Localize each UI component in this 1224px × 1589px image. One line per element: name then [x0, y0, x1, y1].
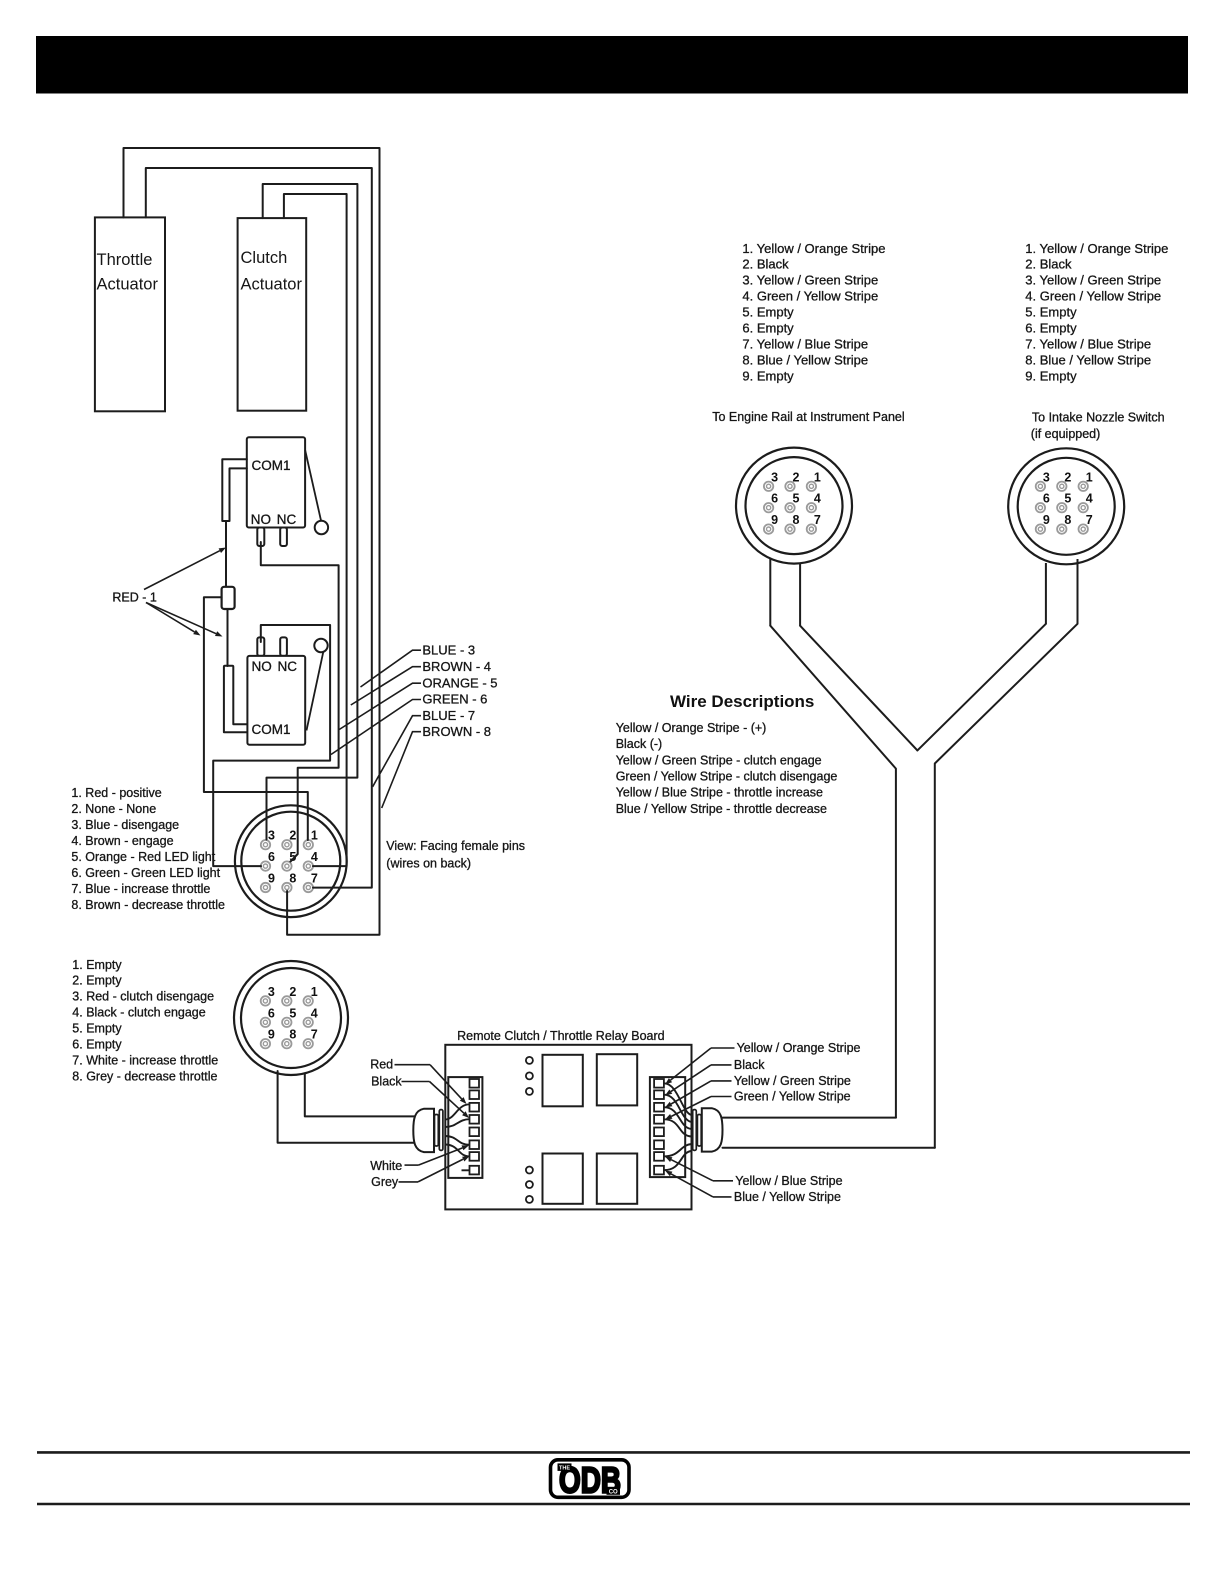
throttle actuator box: [95, 217, 165, 411]
relay board outline: [445, 1045, 691, 1210]
S2 lever: [307, 652, 324, 731]
svg-text:To Engine Rail at Instrument P: To Engine Rail at Instrument Panel: [712, 410, 904, 424]
svg-text:4. Green / Yellow Stripe: 4. Green / Yellow Stripe: [742, 289, 878, 304]
svg-text:6: 6: [771, 492, 778, 506]
S2 lever roller: [314, 639, 327, 652]
svg-text:8. Grey - decrease throttle: 8. Grey - decrease throttle: [72, 1069, 217, 1083]
microswitch S1 body: [247, 437, 305, 527]
svg-text:8: 8: [289, 1028, 296, 1042]
svg-text:BROWN - 4: BROWN - 4: [422, 659, 491, 674]
Black leader arrow: [402, 1082, 470, 1119]
splice block: [222, 587, 235, 609]
right plug wire from sq4: [664, 1119, 692, 1136]
White leader arrow: [405, 1145, 470, 1165]
svg-text:6. Empty: 6. Empty: [742, 321, 794, 336]
relay K1: [543, 1055, 583, 1107]
S1 lever: [305, 450, 321, 521]
svg-text:2. None - None: 2. None - None: [71, 802, 156, 816]
svg-text:White: White: [370, 1159, 402, 1173]
red wire splice to S2 loop: [227, 609, 229, 666]
svg-text:Wire Descriptions: Wire Descriptions: [670, 692, 814, 711]
right plug wire from sq8: [664, 1151, 692, 1170]
svg-text:3. Yellow / Green Stripe: 3. Yellow / Green Stripe: [1025, 273, 1161, 288]
svg-text:3. Yellow / Green Stripe: 3. Yellow / Green Stripe: [742, 273, 878, 288]
J4 stub left: [1045, 563, 1047, 624]
svg-text:Remote Clutch / Throttle Relay: Remote Clutch / Throttle Relay Board: [457, 1029, 665, 1043]
svg-text:BROWN - 8: BROWN - 8: [422, 724, 491, 739]
svg-text:4. Brown - engage: 4. Brown - engage: [71, 834, 173, 848]
view caption: [386, 839, 525, 870]
svg-text:COM1: COM1: [252, 722, 291, 737]
svg-text:6. Green - Green LED light: 6. Green - Green LED light: [71, 866, 220, 880]
svg-text:NO: NO: [251, 512, 271, 527]
svg-text:3: 3: [268, 829, 275, 843]
Y cable left branch inner: [800, 626, 917, 751]
S2 COM cable loop: [224, 666, 247, 733]
relay K2: [597, 1054, 637, 1105]
svg-text:Actuator: Actuator: [97, 276, 159, 294]
svg-text:Black (-): Black (-): [616, 737, 663, 751]
svg-text:3: 3: [1043, 470, 1050, 484]
ODB logo: [551, 1460, 630, 1501]
svg-text:6: 6: [268, 850, 275, 864]
svg-text:3. Red - clutch disengage: 3. Red - clutch disengage: [72, 990, 214, 1004]
svg-text:2: 2: [1064, 470, 1071, 484]
svg-text:NC: NC: [277, 512, 297, 527]
Grey leader arrow: [399, 1156, 470, 1182]
wire 2 throttle pin2 to J1 pin7: [146, 168, 372, 888]
wire descriptions list: [616, 721, 838, 816]
svg-text:1: 1: [311, 829, 318, 843]
svg-text:7. White - increase throttle: 7. White - increase throttle: [72, 1053, 218, 1067]
S2 pin NO: [257, 637, 264, 656]
red branch wire splice to J1 pin1: [204, 597, 308, 840]
svg-text:4. Black - clutch engage: 4. Black - clutch engage: [72, 1006, 205, 1020]
leader Yellow/Green to sq3: [665, 1081, 732, 1108]
svg-text:6: 6: [1043, 492, 1050, 506]
right plug wire from sq3: [664, 1107, 692, 1129]
Y cable left branch outer: [770, 626, 896, 1118]
svg-text:COM1: COM1: [252, 458, 291, 473]
svg-text:7: 7: [311, 872, 318, 886]
svg-text:2. Black: 2. Black: [742, 257, 789, 272]
footer rule bottom: [37, 1503, 1190, 1506]
svg-text:Blue / Yellow Stripe: Blue / Yellow Stripe: [734, 1190, 841, 1204]
svg-text:Yellow / Green Stripe: Yellow / Green Stripe: [734, 1074, 851, 1088]
J3 stub left: [769, 559, 771, 626]
svg-text:Yellow / Green Stripe - clutch: Yellow / Green Stripe - clutch engage: [616, 753, 822, 767]
svg-text:1: 1: [311, 985, 318, 999]
svg-text:5. Empty: 5. Empty: [72, 1022, 122, 1036]
S1 COM cable loop: [222, 459, 247, 521]
leader Black to sq2: [665, 1065, 732, 1096]
svg-text:4: 4: [311, 850, 318, 864]
J4 stub right: [1077, 559, 1079, 624]
svg-text:2. Empty: 2. Empty: [72, 974, 122, 988]
svg-text:5. Empty: 5. Empty: [742, 305, 794, 320]
svg-text:9: 9: [268, 872, 275, 886]
svg-text:CO: CO: [609, 1490, 618, 1496]
relay K3: [543, 1154, 583, 1204]
svg-text:7. Yellow / Blue Stripe: 7. Yellow / Blue Stripe: [1025, 336, 1151, 351]
RED-1 arrow to upper red wire: [144, 551, 220, 590]
svg-text:View: Facing female pins: View: Facing female pins: [386, 839, 525, 853]
svg-text:8: 8: [1064, 513, 1071, 527]
svg-text:Actuator: Actuator: [241, 276, 303, 294]
relay board mounting holes: [526, 1057, 533, 1203]
Y cable right branch inner: [917, 624, 1046, 751]
svg-text:7. Yellow / Blue Stripe: 7. Yellow / Blue Stripe: [742, 336, 868, 351]
wire 4 clutch pin2 to J1 pin4: [284, 194, 347, 866]
svg-text:Black: Black: [734, 1058, 765, 1072]
svg-text:4: 4: [1086, 492, 1093, 506]
wire S2-NO to J1 pin6: [213, 625, 330, 866]
engine rail pin list: [742, 241, 885, 384]
right terminal strip TB2: [650, 1077, 685, 1177]
svg-text:8. Brown - decrease throttle: 8. Brown - decrease throttle: [71, 898, 225, 912]
connector J3 (engine rail): [736, 448, 852, 564]
svg-text:8. Blue / Yellow Stripe: 8. Blue / Yellow Stripe: [742, 352, 868, 367]
svg-text:GREEN - 6: GREEN - 6: [422, 692, 487, 707]
wire colour callouts BLUE-3..BROWN-8: [331, 642, 498, 808]
red wire S1 to splice: [225, 521, 227, 587]
svg-text:3: 3: [268, 985, 275, 999]
svg-text:Green / Yellow Stripe: Green / Yellow Stripe: [734, 1090, 851, 1104]
svg-text:ORANGE - 5: ORANGE - 5: [422, 675, 497, 690]
svg-text:Yellow / Blue Stripe: Yellow / Blue Stripe: [735, 1174, 842, 1188]
connector J1 (to control head): [235, 805, 347, 917]
svg-text:NO: NO: [252, 659, 272, 674]
left plug wire to sq7: [445, 1145, 470, 1157]
right plug wire from sq7: [664, 1144, 692, 1156]
J2 pin description list: [72, 958, 218, 1084]
S1 pin NO: [257, 528, 264, 547]
svg-text:THE: THE: [559, 1466, 570, 1472]
svg-text:6. Empty: 6. Empty: [72, 1037, 122, 1051]
leader Yellow/Blue to sq7: [665, 1157, 733, 1181]
svg-text:Yellow / Orange Stripe: Yellow / Orange Stripe: [737, 1041, 861, 1055]
svg-text:7. Blue - increase throttle: 7. Blue - increase throttle: [71, 882, 210, 896]
intake nozzle caption: [1031, 411, 1165, 441]
svg-text:2: 2: [793, 470, 800, 484]
J1 pin description list: [71, 786, 225, 912]
svg-text:Red: Red: [370, 1058, 393, 1072]
svg-text:Clutch: Clutch: [241, 249, 288, 267]
svg-text:5. Empty: 5. Empty: [1025, 305, 1077, 320]
clutch actuator box: [238, 218, 307, 411]
header bar: [36, 36, 1188, 94]
RED-1 arrow to lower red wire: [146, 603, 216, 634]
J2 cable wire lower: [278, 1071, 414, 1143]
footer rule top: [37, 1451, 1190, 1454]
wire S1-NO to J1 pin5: [261, 542, 339, 862]
svg-text:9: 9: [1043, 513, 1050, 527]
wire 1 throttle pin1 to J1 pin8: [124, 148, 380, 935]
svg-text:1. Red - positive: 1. Red - positive: [71, 786, 161, 800]
intake nozzle pin list: [1025, 241, 1168, 384]
right plug wire from sq1: [664, 1083, 692, 1115]
svg-text:(wires on back): (wires on back): [386, 857, 471, 871]
wire 3 clutch pin1 to J1 pin3: [263, 184, 358, 840]
leader Green/Yellow to sq4: [665, 1097, 732, 1120]
svg-text:Grey: Grey: [371, 1175, 399, 1189]
svg-text:5: 5: [1064, 492, 1071, 506]
relay K4: [597, 1154, 637, 1204]
J3 stub right: [799, 563, 801, 626]
svg-text:NC: NC: [278, 659, 298, 674]
svg-text:Throttle: Throttle: [97, 251, 153, 269]
svg-text:1. Yellow / Orange Stripe: 1. Yellow / Orange Stripe: [742, 241, 885, 256]
svg-text:Black: Black: [371, 1075, 402, 1089]
svg-text:2. Black: 2. Black: [1025, 257, 1072, 272]
left plug wire to sq3: [445, 1104, 470, 1119]
svg-text:9: 9: [771, 513, 778, 527]
svg-text:Yellow / Orange Stripe - (+): Yellow / Orange Stripe - (+): [616, 721, 767, 735]
svg-text:Yellow / Blue Stripe - throttl: Yellow / Blue Stripe - throttle increase: [616, 786, 823, 800]
svg-text:7: 7: [311, 1028, 318, 1042]
S1 pin NC: [280, 528, 287, 547]
svg-text:RED - 1: RED - 1: [112, 591, 156, 605]
svg-text:5. Orange - Red LED light: 5. Orange - Red LED light: [71, 850, 215, 864]
right plug wire from sq2: [664, 1095, 692, 1122]
left terminal strip TB1: [448, 1077, 482, 1178]
svg-text:Blue / Yellow Stripe - throttl: Blue / Yellow Stripe - throttle decrease: [616, 802, 827, 816]
svg-text:BLUE - 3: BLUE - 3: [422, 642, 475, 657]
svg-text:BLUE - 7: BLUE - 7: [422, 708, 475, 723]
svg-text:3: 3: [771, 470, 778, 484]
svg-text:8: 8: [289, 872, 296, 886]
svg-text:1: 1: [1086, 470, 1093, 484]
svg-text:6: 6: [268, 1006, 275, 1020]
throttle actuator label: [97, 251, 159, 294]
svg-text:5: 5: [289, 1006, 296, 1020]
svg-text:4. Green / Yellow Stripe: 4. Green / Yellow Stripe: [1025, 289, 1161, 304]
svg-text:3. Blue - disengage: 3. Blue - disengage: [71, 818, 179, 832]
svg-text:To Intake Nozzle Switch: To Intake Nozzle Switch: [1032, 411, 1165, 425]
svg-text:(if equipped): (if equipped): [1031, 427, 1101, 441]
J2 cable wire upper: [305, 1074, 414, 1116]
svg-text:8: 8: [793, 513, 800, 527]
svg-text:4: 4: [814, 492, 821, 506]
svg-text:1: 1: [814, 470, 821, 484]
S1 lever roller: [315, 521, 328, 534]
left cable plug: [413, 1109, 443, 1152]
RED-1 arrow to branch wire: [146, 603, 195, 632]
left stub to sq8: [462, 1169, 470, 1171]
right cable upper line: [723, 1117, 896, 1119]
connector J4 (intake nozzle): [1008, 448, 1124, 564]
right cable plug: [693, 1108, 723, 1151]
svg-text:1. Yellow / Orange Stripe: 1. Yellow / Orange Stripe: [1025, 241, 1168, 256]
svg-text:8. Blue / Yellow Stripe: 8. Blue / Yellow Stripe: [1025, 352, 1151, 367]
right cable lower line: [723, 1147, 935, 1149]
svg-text:9: 9: [268, 1028, 275, 1042]
svg-text:2: 2: [289, 829, 296, 843]
connector J2 (to relay board): [234, 961, 348, 1075]
leader Yellow/Orange to sq1: [665, 1048, 735, 1085]
svg-text:4: 4: [311, 1006, 318, 1020]
Y cable right branch outer: [935, 624, 1078, 1148]
left plug wire to sq4: [445, 1119, 470, 1127]
svg-text:2: 2: [289, 985, 296, 999]
S2 pin NC: [280, 637, 287, 656]
svg-text:7: 7: [814, 513, 821, 527]
left plug wire to sq6: [445, 1136, 470, 1145]
svg-text:5: 5: [793, 492, 800, 506]
svg-text:6. Empty: 6. Empty: [1025, 321, 1077, 336]
svg-text:9. Empty: 9. Empty: [742, 368, 794, 383]
svg-text:9. Empty: 9. Empty: [1025, 368, 1077, 383]
Red leader arrow: [395, 1065, 467, 1104]
svg-text:Green / Yellow Stripe - clutch: Green / Yellow Stripe - clutch disengage: [616, 769, 838, 783]
microswitch S2 body: [247, 656, 305, 745]
svg-text:7: 7: [1086, 513, 1093, 527]
clutch actuator label: [241, 249, 303, 294]
svg-text:1. Empty: 1. Empty: [72, 958, 122, 972]
leader Blue/Yellow to sq8: [665, 1171, 732, 1197]
